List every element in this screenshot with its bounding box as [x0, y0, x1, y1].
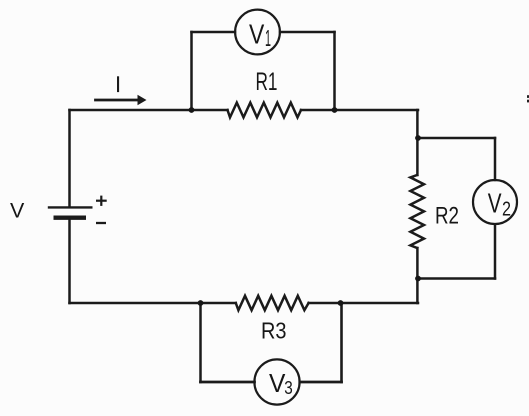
- wire V2 branch right vertical lower: [494, 225, 497, 279]
- battery minus sign: [96, 222, 106, 224]
- current arrow I head: [138, 95, 147, 106]
- voltmeter V1 circle: [235, 10, 280, 55]
- svg-text:3: 3: [284, 377, 293, 398]
- battery V positive plate: [48, 206, 93, 208]
- wire top rail left segment: [70, 109, 228, 112]
- wire bottom-left vertical (battery to bottom rail): [68, 220, 71, 303]
- svg-text:V: V: [488, 188, 502, 219]
- wire V1 loop left vertical: [190, 32, 193, 110]
- battery plus sign: [96, 196, 107, 206]
- scan artifact specks at right edge: [527, 95, 529, 98]
- node dot right lower (R2/V2 bottom junction): [415, 276, 421, 282]
- svg-text:V: V: [10, 199, 25, 223]
- wire bottom rail right segment: [309, 302, 418, 305]
- svg-text:V: V: [249, 19, 265, 50]
- svg-text:R3: R3: [261, 318, 287, 344]
- voltmeter V3 circle: [254, 359, 299, 404]
- node dot right upper (R2/V2 top junction): [415, 135, 421, 141]
- svg-text:R2: R2: [435, 203, 459, 230]
- wire top-left vertical (source to top rail): [68, 110, 71, 206]
- svg-text:R1: R1: [256, 68, 278, 96]
- wire bottom rail left segment: [70, 302, 236, 305]
- wire V3 loop right vertical: [340, 303, 343, 382]
- current arrow I shaft: [96, 99, 140, 102]
- voltmeter V3 label: [269, 370, 293, 398]
- wire right vertical lower (R2 to bottom rail): [416, 248, 419, 303]
- node dot bottom-left (R3/V3 left junction): [198, 300, 204, 306]
- svg-text:2: 2: [502, 199, 511, 221]
- battery V negative plate: [54, 215, 87, 219]
- voltmeter V1 label: [249, 19, 271, 52]
- voltmeter V2 label: [488, 188, 511, 221]
- wire V1 loop right vertical: [333, 32, 336, 110]
- svg-text:V: V: [269, 370, 285, 398]
- wire V3 loop left vertical: [199, 303, 202, 382]
- label I: [117, 76, 119, 92]
- node dot bottom-right (R3/V3 right junction): [338, 300, 344, 306]
- wire V2 branch top horizontal: [418, 137, 495, 140]
- wire V2 branch right vertical upper: [494, 138, 497, 180]
- node dot top-left (V1/R1 left junction): [189, 107, 195, 113]
- voltmeter V2 circle: [473, 180, 517, 224]
- resistor R2: [410, 175, 424, 248]
- wire V3 loop bottom-left horizontal: [201, 381, 255, 384]
- wire top rail right segment: [301, 109, 418, 112]
- resistor R1: [228, 103, 302, 118]
- node dot top-right (V1/R1 right junction): [332, 107, 338, 113]
- wire V3 loop bottom-right horizontal: [300, 381, 342, 384]
- wire V1 loop top-left horizontal: [192, 31, 236, 34]
- resistor R3: [236, 296, 309, 310]
- svg-text:1: 1: [265, 25, 271, 51]
- wire V1 loop top-right horizontal: [280, 31, 335, 34]
- wire V2 branch bottom horizontal: [418, 277, 495, 280]
- wire right vertical upper (to R2): [416, 110, 419, 175]
